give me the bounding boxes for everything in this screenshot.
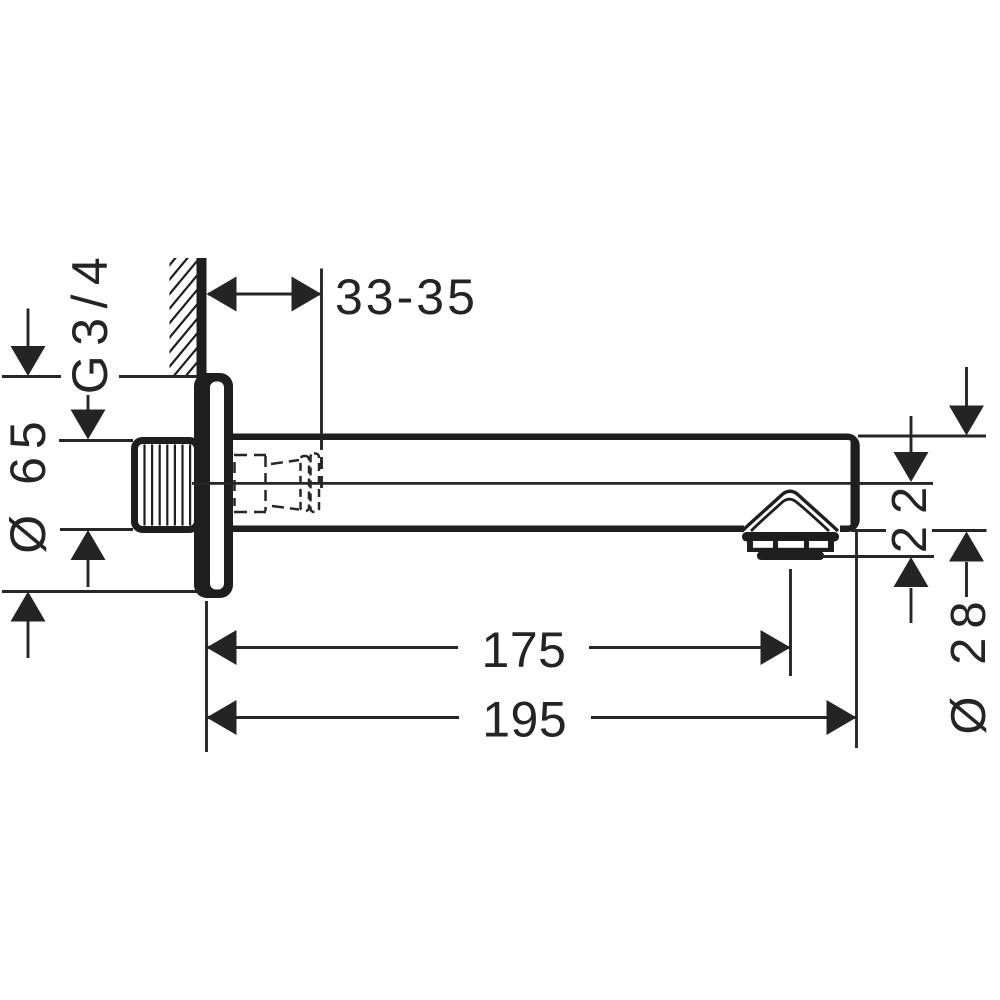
arrowhead 33-35 left (207, 277, 237, 312)
arrowhead 22 top (894, 452, 929, 482)
nipple thread lines (145, 445, 191, 526)
arrowhead dia28 bottom (949, 532, 984, 562)
tail of dia28 bottom arrow (965, 562, 968, 597)
extension line escutcheon bottom (2, 590, 200, 593)
svg-text:195: 195 (482, 692, 567, 748)
extension line left for 175/195 (205, 601, 208, 752)
dimension line 33-35 (208, 293, 320, 296)
tail of 22 bottom arrow (910, 588, 913, 623)
hidden internal cartridge (dashed) (234, 454, 319, 513)
threaded nipple G3/4 body (135, 441, 198, 530)
tail of G3/4 top arrow (87, 395, 90, 411)
arrowhead 175 right (761, 630, 791, 665)
arrowhead G3/4 top (71, 410, 106, 440)
dimension line 175 left segment (207, 646, 459, 649)
arrowhead dia28 top (949, 406, 984, 436)
svg-text:22: 22 (883, 475, 937, 554)
extension line pipe top right (858, 435, 986, 438)
extension line for 33-35 (dashed through pipe) (320, 438, 323, 493)
pipe centerline (192, 482, 851, 485)
svg-text:33-35: 33-35 (335, 269, 478, 325)
extension line escutcheon top right part (119, 375, 197, 378)
arrowhead dia65 top (11, 346, 46, 376)
aerator dome outer line (742, 491, 838, 531)
tail of dia28 top arrow (965, 367, 968, 406)
dimension line 195 left segment (207, 716, 460, 719)
extension line pipe bottom right part2 (932, 529, 987, 532)
extension line aerator bottom right (822, 555, 934, 558)
svg-text:G3/4: G3/4 (62, 248, 118, 394)
extension line centerline right (857, 482, 933, 485)
extension line escutcheon top left part (2, 375, 61, 378)
extension line nipple top (59, 439, 133, 442)
tail of dia65 top arrow (27, 309, 30, 348)
svg-text:Ø 28: Ø 28 (942, 592, 996, 734)
dimension line 195 right segment (591, 716, 857, 719)
arrowhead G3/4 bottom (71, 530, 106, 560)
arrowhead 195 right (827, 700, 857, 735)
wall face line (197, 258, 207, 378)
aerator dome inner line (751, 499, 829, 531)
extension line aerator center for 175 (789, 569, 792, 676)
arrowhead 175 left (207, 630, 237, 665)
arrowhead 195 left (207, 700, 237, 735)
tail of G3/4 bottom arrow (87, 559, 90, 587)
aerator ring stack (742, 532, 839, 560)
arrowhead dia65 bottom (11, 592, 46, 622)
extension line pipe bottom right part1 (851, 529, 886, 532)
escutcheon inner face (210, 382, 224, 590)
svg-text:175: 175 (482, 622, 567, 678)
extension line pipe end for 195 (855, 531, 858, 748)
extension line nipple bottom (60, 528, 133, 531)
tail of 22 top arrow (910, 416, 913, 453)
gap in pipe bottom edge under aerator (744, 522, 840, 534)
svg-text:Ø 65: Ø 65 (0, 413, 56, 553)
spout pipe body (215, 437, 857, 529)
tail of dia65 bottom arrow (27, 621, 30, 658)
pipe right end edge (851, 441, 856, 526)
aerator slots (753, 541, 828, 548)
escutcheon (wall flange) outer (194, 373, 233, 598)
wall section hatching (160, 200, 212, 436)
dimension line 175 right segment (589, 646, 791, 649)
arrowhead 22 bottom (894, 557, 929, 587)
extension line for 33-35 (solid above pipe) (320, 269, 323, 437)
arrowhead 33-35 right (292, 277, 322, 312)
